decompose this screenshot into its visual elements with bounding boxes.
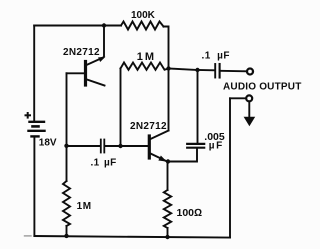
wire scan stub bottom left [25, 235, 32, 237]
capacitor C1 .1uF base: left lead [67, 145, 101, 147]
svg-text:18V: 18V [39, 137, 57, 148]
resistor 100 ohm [164, 190, 171, 228]
transistor Q2 emitter lead with arrow [151, 154, 167, 162]
svg-text:µF: µF [209, 141, 224, 152]
capacitor C1 plates [100, 140, 102, 153]
label + battery [25, 112, 32, 119]
svg-text:2N2712: 2N2712 [63, 47, 100, 58]
battery minus mark [33, 125, 39, 128]
transistor Q2 bar [148, 136, 151, 158]
svg-text:100Ω: 100Ω [177, 207, 203, 219]
wire Q2 collector vertical [168, 69, 170, 131]
wire 100 ohm to bottom rail [167, 228, 169, 237]
ground symbol [244, 117, 256, 127]
svg-text:2N2712: 2N2712 [130, 121, 167, 132]
battery plate long bottom [29, 130, 45, 132]
node 1M-horizontal left end drop [118, 144, 122, 148]
wire Q1 base down to node [66, 73, 68, 146]
wire top rail [34, 25, 121, 27]
transistor Q2 collector lead [151, 131, 169, 140]
wire node to output cap node [169, 69, 198, 71]
node bottom rail left [64, 234, 68, 238]
wire emitter down to 100 ohm [167, 162, 169, 191]
wire battery stem to bottom rail [33, 136, 35, 236]
terminal audio output top [247, 69, 253, 75]
wire .005 bottom lead to emitter node [168, 149, 197, 162]
wire 1M vertical bottom lead [66, 226, 68, 236]
wire 100K right end to vertical [164, 27, 169, 69]
wire bottom rail [34, 236, 230, 238]
capacitor C2 .1uF output plates [214, 64, 216, 78]
wire node to cap C2 [198, 69, 215, 71]
transistor Q1 base lead [67, 72, 85, 74]
node base cap junction left [64, 144, 68, 148]
wire terminal to right rail [230, 97, 246, 99]
transistor Q1 emitter lead [87, 80, 105, 86]
node 1M right / vertical [166, 66, 170, 70]
terminal audio output bottom [246, 95, 252, 101]
svg-text:.1 µF: .1 µF [202, 50, 231, 61]
wire .005 cap top lead [197, 70, 199, 143]
wire cap C2 to output terminal [221, 70, 247, 73]
svg-text:1M: 1M [77, 201, 92, 212]
transistor Q1 collector lead with arrow [87, 58, 104, 66]
node top rail / Q1 collector [102, 23, 106, 27]
resistor 100K [121, 22, 164, 30]
resistor 1M horizontal [121, 63, 169, 70]
svg-text:100K: 100K [131, 10, 156, 21]
wire left rail top [33, 26, 35, 121]
wire 1M vertical top lead [66, 146, 68, 181]
battery B1 plate long top [30, 121, 45, 123]
battery plate short [32, 135, 39, 137]
capacitor C1 right lead to Q2 base [105, 145, 148, 147]
wire 1M horizontal left end down [120, 69, 122, 147]
svg-text:1M: 1M [137, 51, 156, 63]
resistor 1M vertical [63, 181, 70, 226]
svg-text:.1 µF: .1 µF [91, 157, 117, 168]
node output cap / .005 top [195, 68, 199, 72]
wire Q1 collector vertical [103, 26, 105, 57]
svg-text:AUDIO OUTPUT: AUDIO OUTPUT [223, 81, 302, 92]
node bottom rail right [165, 235, 169, 239]
transistor Q1 bar [84, 62, 87, 86]
ground lead [248, 102, 250, 118]
capacitor C3 .005uF plates [187, 143, 204, 145]
wire right rail [229, 98, 231, 237]
node Q2 emitter junction [166, 159, 170, 163]
